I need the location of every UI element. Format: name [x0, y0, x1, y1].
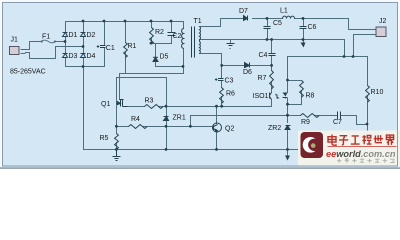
svg-text:C2: C2 — [173, 33, 182, 40]
wire: D7 cathode to C5 node — [253, 18, 283, 20]
junction at 344,56.5 — [343, 55, 346, 58]
svg-text:R2: R2 — [155, 29, 164, 36]
inductor L1 — [283, 16, 295, 18]
capacitor C5 — [264, 27, 271, 29]
wire: R6 bottom to gate line — [221, 97, 223, 107]
wire: R8 branch — [288, 80, 302, 82]
resistor R6 — [220, 88, 224, 104]
svg-text:Q1: Q1 — [101, 101, 110, 108]
junction at 190.4,126.3 — [189, 125, 192, 128]
wire: R9 C7 feedback line — [288, 115, 301, 117]
ground below R5 — [113, 150, 121, 161]
ground arrow below C6 — [301, 43, 306, 48]
svg-text:C3: C3 — [225, 78, 234, 85]
resistor R1 — [124, 43, 128, 58]
wire: ZR2 bottom to rail — [287, 130, 289, 156]
wire: feedback jog up — [191, 116, 288, 127]
resistor R10 — [366, 86, 370, 103]
wire: snubber bottom tie — [152, 43, 172, 45]
fuse end cap left — [41, 40, 43, 42]
junction at 171,21 — [170, 20, 173, 23]
svg-text:ZR1: ZR1 — [173, 115, 186, 122]
svg-text:C5: C5 — [273, 20, 282, 27]
svg-text:R1: R1 — [128, 43, 137, 50]
junction at 116.4,149.4 — [115, 148, 118, 151]
diode D3 — [63, 54, 68, 58]
resistor R5 — [115, 134, 119, 150]
zener D5 — [153, 57, 158, 61]
small gray slogan glyphs — [337, 159, 395, 163]
wire: R3 right to gate node dot — [159, 106, 167, 108]
wire: secondary top pin to D7 — [200, 19, 243, 27]
capacitor C4 — [269, 54, 276, 56]
wire: Q1 source column to R5 — [116, 78, 118, 134]
svg-text:D3: D3 — [69, 53, 78, 60]
junction at 267,18.4 — [266, 17, 269, 20]
wire: R7 to ISO1 collector — [271, 83, 273, 93]
connector J2 — [376, 18, 387, 37]
capacitor C7 — [338, 112, 341, 120]
wire: bottom ground rail — [84, 149, 368, 151]
wire: D6 cathode to C4 column — [251, 65, 272, 67]
wire: C2 bottom — [171, 36, 173, 44]
red rule under chinese title — [328, 146, 397, 148]
junction at 116.4,126.3 — [115, 125, 118, 128]
svg-text:eeworld.com.cn: eeworld.com.cn — [326, 149, 396, 159]
junction at 216.5,106.2 — [215, 105, 218, 108]
junction at 83,21 — [82, 20, 85, 23]
svg-text:F1: F1 — [42, 33, 50, 40]
logo crescent inner cut — [308, 139, 320, 151]
svg-text:J1: J1 — [11, 37, 19, 44]
junction at 353,56.5 — [352, 55, 355, 58]
wire: ZR2 column top — [287, 116, 289, 123]
wire: C5 top lead — [267, 19, 269, 27]
wire: bottom bus bridge to C1 — [66, 66, 105, 68]
wire: rail drop — [344, 40, 346, 57]
wire: ZR1 column — [166, 107, 168, 117]
connector J1 — [10, 37, 26, 55]
svg-text:85-265VAC: 85-265VAC — [10, 69, 46, 76]
zener ZR2 — [285, 126, 291, 130]
wire: C6 top lead — [303, 19, 305, 27]
junction at 125,21 — [124, 20, 127, 23]
page background — [0, 0, 400, 169]
junction at 151,43.1 — [150, 42, 153, 45]
wire: T1 primary top pin — [183, 22, 185, 29]
svg-text:C1: C1 — [106, 45, 115, 52]
svg-text:ISO1: ISO1 — [253, 93, 269, 100]
resistor R4 — [129, 125, 148, 129]
diode D1 — [63, 33, 68, 37]
wire: drain wire from primary to Q1 — [120, 67, 184, 100]
resistor R3 — [145, 105, 164, 109]
wire: secondary lower pin to C3 — [200, 54, 222, 66]
fuse end cap right — [54, 40, 56, 42]
capacitor C6 — [300, 27, 307, 29]
fuse F1 — [41, 40, 57, 43]
wire: AC neutral to right leg — [26, 47, 84, 59]
diode D6 — [245, 63, 250, 68]
wire: ZR1 bottom to rail — [166, 122, 168, 150]
wire: R1 top lead — [125, 22, 127, 43]
capacitor C3 — [215, 78, 224, 81]
resistor R2 — [150, 28, 154, 45]
wire: R4 to Q2 base — [144, 126, 214, 128]
junction at 271.6,65.4 — [270, 64, 273, 67]
svg-text:D4: D4 — [87, 53, 96, 60]
transistor Q1 (MOSFET) — [117, 100, 128, 107]
wire: C1 column bottom — [104, 48, 106, 67]
svg-text:T1: T1 — [194, 18, 202, 25]
wire: C2 column — [171, 22, 173, 33]
wire: C6 bottom lead — [303, 29, 305, 40]
logo crescent outer — [303, 137, 319, 153]
junction at 287.5,149.4 — [286, 148, 289, 151]
svg-text:R9: R9 — [301, 119, 310, 126]
wire: gate line to ISO1 — [167, 106, 272, 108]
wire: C3 column — [221, 66, 223, 79]
wire: C7 to drop — [341, 116, 357, 125]
svg-text:D2: D2 — [87, 32, 96, 39]
wire: AC live from fuse to left leg — [26, 42, 42, 50]
wire: top DC+ rail — [66, 21, 184, 23]
junction at 221.7,65.4 — [220, 64, 223, 67]
wire: output secondary tie line — [288, 56, 368, 58]
capacitor C2 — [168, 33, 176, 36]
wire: Q2 collector — [216, 107, 218, 124]
wire: R10 top lead — [367, 57, 369, 86]
junction at 271.6,39.5 — [270, 38, 273, 41]
电子工程世界 vector glyphs — [328, 135, 394, 146]
svg-text:D6: D6 — [243, 69, 252, 76]
svg-text:R8: R8 — [306, 93, 315, 100]
wire: J2 stub2 drop — [354, 35, 377, 57]
wire: center tap ground stub — [230, 40, 232, 44]
logo dot — [311, 143, 316, 148]
wire: T1 primary bottom pin — [183, 49, 185, 67]
wire: R3 line from Q1 source — [124, 106, 145, 108]
svg-text:R5: R5 — [100, 135, 109, 142]
svg-text:R3: R3 — [145, 98, 154, 105]
resistor R9 — [301, 114, 320, 118]
junction at 287.5,115.2 — [286, 114, 289, 117]
diode D4 — [81, 54, 86, 58]
svg-text:L1: L1 — [280, 8, 288, 15]
wire: C4 column bottom — [271, 56, 273, 66]
svg-text:C4: C4 — [259, 52, 268, 59]
junction at 367,124 — [366, 123, 369, 126]
svg-text:D5: D5 — [160, 54, 169, 61]
wire: C4 column top — [271, 40, 273, 54]
wire: R10 bottom to rail — [367, 96, 369, 150]
wire: C3 to R6 — [221, 81, 223, 88]
junction at 166,106.2 — [165, 105, 168, 108]
transistor Q2 — [213, 123, 222, 132]
wire: D5 top lead — [155, 44, 157, 57]
junction at 303,39.5 — [302, 38, 305, 41]
wire: R9 to C7 — [315, 115, 338, 117]
zener ZR1 — [164, 117, 169, 121]
svg-text:R10: R10 — [371, 89, 384, 96]
wire: D6 line — [222, 65, 245, 67]
border frame redraw — [3, 3, 398, 167]
svg-text:R6: R6 — [226, 91, 235, 98]
wire: secondary return rail — [200, 39, 345, 41]
schematic background — [2, 2, 398, 167]
diode D2 — [81, 33, 86, 37]
resistor R7 — [270, 71, 274, 89]
wire: C1 column top — [104, 22, 106, 46]
capacitor C1 — [97, 45, 106, 48]
wire: R4 base line — [117, 126, 129, 128]
wire: bridge negative drop — [83, 67, 85, 150]
junction at 151,21 — [150, 20, 153, 23]
svg-text:D7: D7 — [239, 8, 248, 15]
wire: bridge right leg — [83, 22, 85, 67]
svg-text:Q2: Q2 — [225, 126, 234, 133]
diode D7 — [244, 16, 248, 21]
wire: ISO1 emitter to gate line — [271, 100, 273, 107]
ground (center tap) — [227, 44, 235, 49]
svg-text:D1: D1 — [69, 32, 78, 39]
svg-text:R4: R4 — [131, 116, 140, 123]
wire: D5 to primary bottom node — [156, 62, 184, 67]
wire: gate feed wire — [117, 78, 167, 107]
wire: Q2 emitter — [216, 133, 218, 150]
wire: R8 bottom return — [288, 91, 302, 105]
svg-text:C6: C6 — [308, 24, 317, 31]
svg-text:C7: C7 — [333, 119, 342, 126]
junction at 287.5,104.2 — [286, 103, 289, 106]
wire: L1 to J2 drop — [295, 19, 377, 30]
junction at 166,149.4 — [165, 148, 168, 151]
transformer T1 — [182, 27, 201, 58]
junction at 303,18.4 — [302, 17, 305, 20]
junction at 216.5,149.4 — [215, 148, 218, 151]
optocoupler ISO1 — [270, 93, 288, 100]
wire: R5 bottom to rail corner — [116, 143, 118, 150]
wire: bridge left leg — [65, 22, 67, 67]
wire: R8 column upper — [287, 57, 289, 93]
wire: R2 bottom lead — [151, 38, 153, 44]
wire: C7 drop link — [357, 124, 368, 126]
wire: R2 top lead — [151, 22, 153, 28]
junction at 166,126.3 — [165, 125, 168, 128]
wire: R7 top — [271, 66, 273, 71]
eeworld logo panel — [298, 131, 400, 167]
junction at 83,46.5 — [82, 45, 85, 48]
border frame — [3, 3, 398, 167]
wire: C5 bottom lead — [267, 29, 269, 40]
junction at 104,21 — [103, 20, 106, 23]
junction at 267,39.5 — [266, 38, 269, 41]
junction at 287.5,80 — [286, 79, 289, 82]
junction at 83,66.5 — [82, 65, 85, 68]
wire: R1 bottom lead — [125, 52, 127, 74]
bottom edge strip — [0, 167, 400, 169]
svg-text:J2: J2 — [379, 18, 387, 25]
junction at 65,41.5 — [64, 40, 67, 43]
ground arrow below ZR2 — [285, 156, 290, 161]
svg-text:R7: R7 — [258, 75, 267, 82]
junction at 221.7,106.2 — [220, 105, 223, 108]
resistor R8 — [300, 81, 304, 98]
wire: LED column to feedback node — [287, 99, 289, 116]
junction at 183,66.4 — [182, 65, 185, 68]
svg-text:ZR2: ZR2 — [268, 125, 281, 132]
wire: fuse to bridge — [56, 41, 66, 43]
wire: C6 ground stub — [303, 40, 305, 43]
